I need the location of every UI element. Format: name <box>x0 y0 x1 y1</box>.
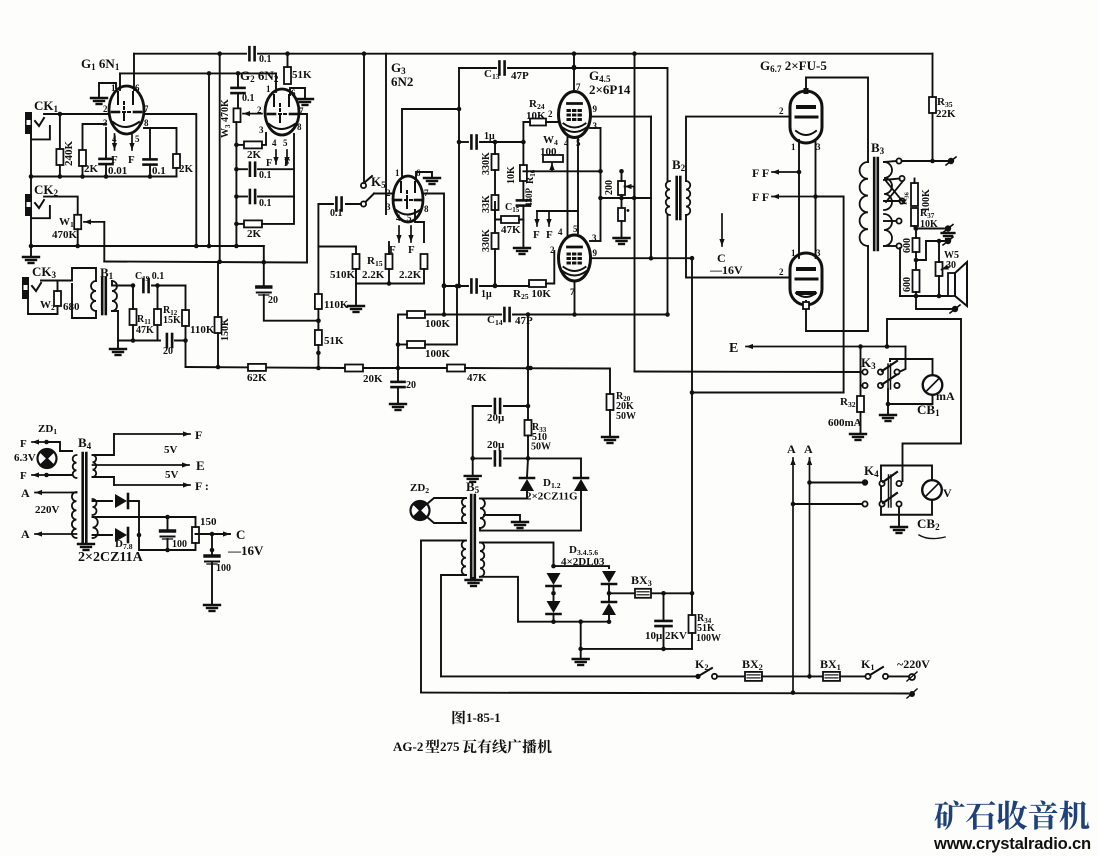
svg-text:F: F <box>111 154 118 166</box>
svg-text:5: 5 <box>135 134 140 144</box>
lamp ZD1 <box>38 449 57 468</box>
wire 110K left top <box>185 286 187 311</box>
pot W5 30 <box>936 262 943 276</box>
wire W5 arrow <box>941 265 949 272</box>
triode G3 internals <box>395 182 421 215</box>
diode D1 <box>520 478 534 491</box>
wire R24 left <box>523 122 530 142</box>
wire out b drop <box>916 241 926 260</box>
svg-text:6.3V: 6.3V <box>14 452 36 464</box>
node x318 y320 <box>316 318 321 323</box>
wire F arrow G1 pin4 <box>112 134 117 150</box>
node 240K bottom <box>58 174 63 179</box>
wire 240K top <box>59 114 61 149</box>
wire R35 top <box>932 54 934 97</box>
svg-text:0.1: 0.1 <box>152 165 166 177</box>
resistor 600 lower <box>913 270 920 292</box>
wire cathode rail G3 <box>356 269 424 284</box>
svg-text:8: 8 <box>424 204 429 214</box>
svg-text:G6.7 2×FU-5: G6.7 2×FU-5 <box>760 58 827 74</box>
svg-text:8: 8 <box>297 122 302 132</box>
node y262 end <box>316 318 321 323</box>
wire K3 b1 stub <box>861 385 863 387</box>
terminal out a <box>943 225 953 233</box>
svg-text:—16V: —16V <box>227 543 264 558</box>
wire BX3 rail <box>609 592 692 594</box>
svg-text:1μ: 1μ <box>481 289 492 300</box>
pentode U G4 upper 6P14 internals <box>563 104 587 133</box>
wire F out top link <box>93 434 115 455</box>
contact out 5 <box>896 243 901 248</box>
capacitor 0.1 K5 <box>336 198 341 211</box>
wire 100K lower left <box>398 344 407 346</box>
terminal 220 neutral <box>907 689 917 698</box>
transformer B3 primary coil <box>860 162 868 246</box>
resistor 62K <box>248 364 266 371</box>
svg-text:5: 5 <box>407 213 412 223</box>
wire bridge top rail <box>554 566 610 568</box>
wire B plus drop x634 <box>634 54 636 372</box>
wire R32 drop <box>860 347 862 397</box>
node B2 prim bottom <box>665 312 670 317</box>
wire 33K to 330K lower <box>494 210 496 233</box>
wire ZD1 bot link <box>47 474 73 476</box>
diode D6 <box>602 602 616 615</box>
wire W1 wiper down <box>103 222 105 262</box>
junction dots x318 <box>316 351 321 371</box>
ground 20 bus <box>390 404 406 410</box>
wire r2 gnd stem <box>621 221 623 237</box>
wire W4 wiper <box>549 163 554 171</box>
svg-text:7: 7 <box>576 82 581 92</box>
wire G4u plate up <box>573 54 575 92</box>
diode D2 <box>574 478 588 491</box>
wire W3 bottom rail <box>235 122 237 246</box>
svg-text:F: F <box>546 229 553 241</box>
resistor R15 2.2K <box>386 254 393 269</box>
wire 20u left rail <box>472 406 474 475</box>
tube G6l bottom pin <box>803 302 809 309</box>
resistor bias lower <box>618 208 625 221</box>
wire G4l plate down <box>574 281 576 315</box>
wire C out <box>196 533 231 535</box>
switch K1 blade <box>870 667 883 675</box>
svg-text:8: 8 <box>144 118 149 128</box>
meter CB1 mA <box>923 375 943 395</box>
wire G1 cathode bus <box>31 176 177 178</box>
wire A right to K4 <box>810 482 863 484</box>
wire D out down <box>139 535 195 550</box>
wire 100K join <box>397 317 399 368</box>
node 100b rail <box>210 548 215 553</box>
junction dots ZD1 <box>44 440 49 478</box>
wire B5 R2 bot out <box>480 577 518 622</box>
svg-text:1: 1 <box>395 168 400 178</box>
lamp ZD2 <box>411 501 430 520</box>
wire R15 bottom <box>388 269 390 284</box>
wire A left to K4 <box>793 503 862 505</box>
svg-text:2: 2 <box>550 245 555 255</box>
wire C15 to 47K <box>522 207 524 220</box>
wire 51K bottom <box>317 345 319 368</box>
core stem B4 <box>85 538 87 544</box>
svg-text:2: 2 <box>779 267 784 277</box>
junction dots minus rail <box>578 647 665 652</box>
wire 330K lower bottom <box>494 249 496 286</box>
svg-text:F: F <box>533 229 540 241</box>
svg-text:W3 470K: W3 470K <box>220 99 232 138</box>
wire K4 box <box>881 466 932 481</box>
diode D5 <box>602 571 616 584</box>
capacitor C15 430P <box>517 200 530 205</box>
diode D4 <box>547 601 561 614</box>
svg-text:600: 600 <box>902 238 913 253</box>
wire 200 top <box>621 171 623 181</box>
wire W5 bottom <box>938 276 940 296</box>
wire second bus y74 <box>120 72 276 74</box>
resistor R20 20K 50W <box>607 394 614 410</box>
switch K5 blade2 <box>366 194 375 203</box>
contact out 3 <box>899 198 904 203</box>
wire live to term <box>888 675 908 677</box>
junction dots filament <box>797 170 818 199</box>
wire F arrow G1 pin5 <box>129 134 134 150</box>
wire main bus right <box>465 368 610 394</box>
ground R32 <box>850 434 866 440</box>
wire R11 top <box>132 286 134 310</box>
svg-text:0.1: 0.1 <box>259 54 272 65</box>
contact K4 a2 <box>879 481 884 486</box>
wire G3 box left <box>385 54 387 214</box>
svg-text:0.1: 0.1 <box>242 93 255 104</box>
junction dots spk rail <box>914 294 942 299</box>
node D join <box>137 533 142 538</box>
wire W1 wiper <box>84 219 104 224</box>
wire G1 pin8 <box>144 128 177 154</box>
svg-text:3: 3 <box>103 118 108 128</box>
contact K4 a3 <box>896 481 901 486</box>
meter CB2 V <box>922 480 942 500</box>
svg-text:47P: 47P <box>515 315 533 327</box>
node 100K lower <box>396 342 401 347</box>
resistor 330K upper <box>492 154 499 170</box>
wire plate bus to B2 <box>574 68 668 181</box>
tube G7 lower internals2 <box>798 291 814 295</box>
resistor R24 10K <box>530 119 546 126</box>
node 600u top <box>914 226 919 231</box>
wire row3 right <box>258 169 294 196</box>
wire cap100a top <box>167 517 169 531</box>
transformer B4 core <box>83 453 87 542</box>
svg-text:100: 100 <box>216 563 231 574</box>
svg-text:C19 0.1: C19 0.1 <box>135 271 164 283</box>
ground B4 core <box>78 544 94 550</box>
resistor 510K G3 <box>353 254 360 269</box>
wire F zd1 top <box>32 439 47 444</box>
wire A in top <box>35 490 72 495</box>
cross link a <box>886 181 903 202</box>
resistor 33K <box>492 195 499 210</box>
junction dots x459 <box>457 140 462 289</box>
svg-text:F F: F F <box>752 166 769 180</box>
svg-text:600: 600 <box>902 277 913 292</box>
wire E to K4 feed <box>887 319 961 481</box>
ground G3 pin6 <box>424 178 440 184</box>
transformer B5 coil L1 <box>462 498 466 523</box>
watermark crystalradio cjk <box>935 800 965 830</box>
node 600 tap <box>914 258 919 263</box>
wire C14 right <box>513 314 668 316</box>
svg-text:A: A <box>21 527 30 541</box>
node x457 y286 <box>455 284 460 289</box>
wire 600l bottom <box>915 292 917 296</box>
svg-text:5: 5 <box>283 138 288 148</box>
tube U G7 lower FU-5 internals <box>796 269 817 297</box>
contact K3 b1 <box>862 383 867 388</box>
junction dots A lines <box>791 480 812 695</box>
wire G2 2K top link <box>236 144 244 146</box>
wire A top link <box>72 492 77 494</box>
resistor R36 100K <box>911 183 918 206</box>
wire 150K bottom <box>217 333 219 367</box>
svg-text:1: 1 <box>266 84 271 94</box>
fuse BX1 <box>823 672 840 681</box>
speaker LS <box>948 262 967 306</box>
switch K4 blade1 <box>883 472 897 482</box>
svg-text:2K: 2K <box>247 228 262 240</box>
contact K1 a <box>865 674 870 679</box>
wire R32 gnd stem <box>860 412 862 433</box>
capacitor 0.1 G2 out <box>250 190 255 203</box>
resistor 2K G1 left <box>79 150 86 166</box>
wire CK1 sleeve <box>31 126 50 139</box>
terminal out b <box>943 237 953 245</box>
wire FF to meter drop <box>816 197 844 393</box>
svg-text:150K: 150K <box>220 318 231 341</box>
svg-text:51K: 51K <box>324 335 344 347</box>
resistor 47K bus <box>447 365 465 372</box>
transformer B2 primary coil <box>666 181 670 215</box>
svg-text:50W: 50W <box>616 411 636 422</box>
node K3 gnd <box>886 402 891 407</box>
wire R16 top <box>522 142 524 165</box>
wire tap3 <box>884 200 900 202</box>
transformer B4 coil L1 <box>73 455 77 478</box>
contact K3 a2 <box>878 369 883 374</box>
wire live rail left <box>441 675 696 677</box>
wire out line b <box>926 240 944 242</box>
wire ZD2 bot <box>427 517 466 523</box>
wire D2 bottom loop <box>480 491 581 531</box>
wire G1 pin1 to y74 <box>119 73 121 90</box>
wire R36 top <box>914 179 916 184</box>
pot W4 100 <box>543 155 563 162</box>
wire B5 R2 top out <box>480 543 554 565</box>
resistor 51K mid <box>315 330 322 345</box>
wire E out <box>93 462 190 467</box>
capacitor 20u upper <box>495 399 500 413</box>
svg-text:100W: 100W <box>696 633 721 644</box>
junction dots y246 <box>194 244 211 249</box>
svg-text:330K: 330K <box>481 152 492 175</box>
junction dots y340 <box>131 338 188 343</box>
wire CK2 sleeve <box>31 206 50 218</box>
ground 200 chain <box>614 238 630 244</box>
svg-text:4: 4 <box>396 213 401 223</box>
node R35 out <box>930 159 935 164</box>
switch K4 blade2 <box>883 493 897 503</box>
wire D1 to B5 <box>480 491 527 499</box>
node CK1 line <box>58 112 63 117</box>
node bridge left mid <box>551 591 556 596</box>
wire B1 sec top <box>112 281 133 286</box>
wire screen bus <box>650 117 652 259</box>
arrow C out <box>223 531 230 536</box>
jack CK1 <box>25 112 44 134</box>
diode D3 <box>547 573 561 586</box>
svg-text:47K: 47K <box>136 325 154 336</box>
wire x220 vertical <box>219 54 221 262</box>
ground 510K <box>348 306 364 312</box>
junction dots E line <box>858 344 889 349</box>
transformer B2 core <box>677 177 681 219</box>
wire G3 grid top <box>402 109 459 176</box>
wire bridge right bot <box>608 615 610 622</box>
switch K3 blade1 <box>882 361 897 371</box>
svg-text:3: 3 <box>259 125 264 135</box>
svg-text:20: 20 <box>406 380 416 391</box>
wire 1u lower right <box>480 285 529 287</box>
wire K5 to G3 grid <box>374 193 393 195</box>
wire R20 gnd stem <box>609 410 611 436</box>
junction dots cath rail <box>387 281 392 286</box>
wire F out bot link <box>93 477 115 485</box>
wire R11 R12 bottom rail <box>118 340 160 342</box>
wire x209 vertical <box>208 73 210 246</box>
wire cap100a bot <box>167 539 169 550</box>
resistor 110K mid <box>315 294 322 309</box>
junction dots R33 feed <box>526 312 531 370</box>
transformer B1 secondary <box>112 281 117 311</box>
svg-text:3: 3 <box>386 202 391 212</box>
wire G2 coupling drop <box>237 73 239 86</box>
svg-text:6: 6 <box>291 88 296 98</box>
resistor 2K G2 row4 <box>244 220 262 227</box>
wire 1u lower left <box>444 285 468 287</box>
wire B5 tap gnd <box>484 515 520 521</box>
capacitor C13 47P <box>499 62 504 75</box>
wire R34 bot <box>691 633 693 649</box>
wire F out top <box>114 431 190 436</box>
contact out 4 <box>896 218 901 223</box>
wire G4u screen <box>590 116 651 118</box>
caption AG-2 type cjk1 <box>425 739 439 753</box>
contact out 1 <box>896 158 901 163</box>
wire mid tap right <box>168 516 196 518</box>
switch K5 blade <box>364 176 372 183</box>
squiggle CB2 <box>919 535 945 539</box>
wire 20u gnd <box>397 389 399 403</box>
wire B2 sec bottom <box>686 215 789 278</box>
svg-text:22K: 22K <box>936 108 956 120</box>
resistor 200 <box>618 181 625 195</box>
svg-text:0.01: 0.01 <box>108 165 127 177</box>
wire R15 top <box>388 242 390 254</box>
wire live rail 3 <box>762 675 866 677</box>
junction dots plate feed <box>572 51 577 70</box>
core stem B5 <box>473 578 475 580</box>
svg-text:20: 20 <box>163 346 173 357</box>
wire B1 prim bottom <box>72 284 96 318</box>
contact K4 b3 <box>896 501 901 506</box>
junction dots cath tap <box>598 196 636 201</box>
junction dots y74 <box>207 71 241 76</box>
wire 20 to 110K <box>175 326 186 341</box>
wire 20u upper right <box>504 405 528 407</box>
svg-text:G1 6N1: G1 6N1 <box>81 56 120 72</box>
resistor 110K left <box>182 310 189 326</box>
transformer B3 core <box>874 158 878 250</box>
contact K5 a <box>361 183 366 188</box>
wire C13 top <box>459 67 496 69</box>
switch K2 blade <box>698 668 712 676</box>
wire tap5 <box>884 245 897 247</box>
capacitor C19 0.1 <box>143 279 148 292</box>
triode U G3 envelope <box>393 176 423 222</box>
wire bias C arrow <box>719 214 724 246</box>
svg-text:10μ: 10μ <box>645 630 663 642</box>
node C line <box>210 532 215 537</box>
tube G6u top cap <box>804 88 809 94</box>
node screen join <box>649 256 654 261</box>
wire F arrow G3 pin4 <box>396 226 401 242</box>
wire G1 pin6 to bus <box>133 54 135 90</box>
svg-text:5V: 5V <box>164 444 178 456</box>
node x692 y392 <box>690 390 695 395</box>
node y286 495 <box>493 284 498 289</box>
jack CK2 <box>25 194 44 216</box>
ground 47K fb <box>514 248 530 254</box>
svg-text:470K: 470K <box>52 229 78 241</box>
wire cap to W3 <box>237 95 239 108</box>
wire 2.2Kb top <box>415 210 424 242</box>
svg-text:mA: mA <box>936 389 955 403</box>
wire R25 jog <box>528 284 530 287</box>
wire G3 plate right <box>423 194 444 315</box>
resistor R16 10K <box>520 165 527 181</box>
wire 47K right gnd <box>519 220 523 248</box>
wire 20u lower left <box>473 457 491 459</box>
transformer B4 coil R1 <box>93 455 97 477</box>
resistor 100K upper <box>407 311 425 318</box>
resistor 100K lower <box>407 341 425 348</box>
svg-text:220V: 220V <box>35 504 60 516</box>
node W1 bottom <box>75 244 80 249</box>
wire R24 right <box>546 117 559 122</box>
wire top B+ bus right <box>258 53 933 55</box>
transformer B1 core <box>102 278 106 314</box>
caption cjk rest <box>463 739 477 753</box>
svg-text:5V: 5V <box>165 469 179 481</box>
wire 100K lower right <box>425 286 457 345</box>
svg-text:9: 9 <box>593 104 598 114</box>
node grid top <box>457 107 462 112</box>
fuse BX3 <box>635 589 651 598</box>
wire R16 to C15 <box>522 181 524 199</box>
wire W5 top <box>938 241 940 262</box>
wire cap to x318 <box>318 204 333 294</box>
wire B2 primary bottom <box>667 215 669 315</box>
